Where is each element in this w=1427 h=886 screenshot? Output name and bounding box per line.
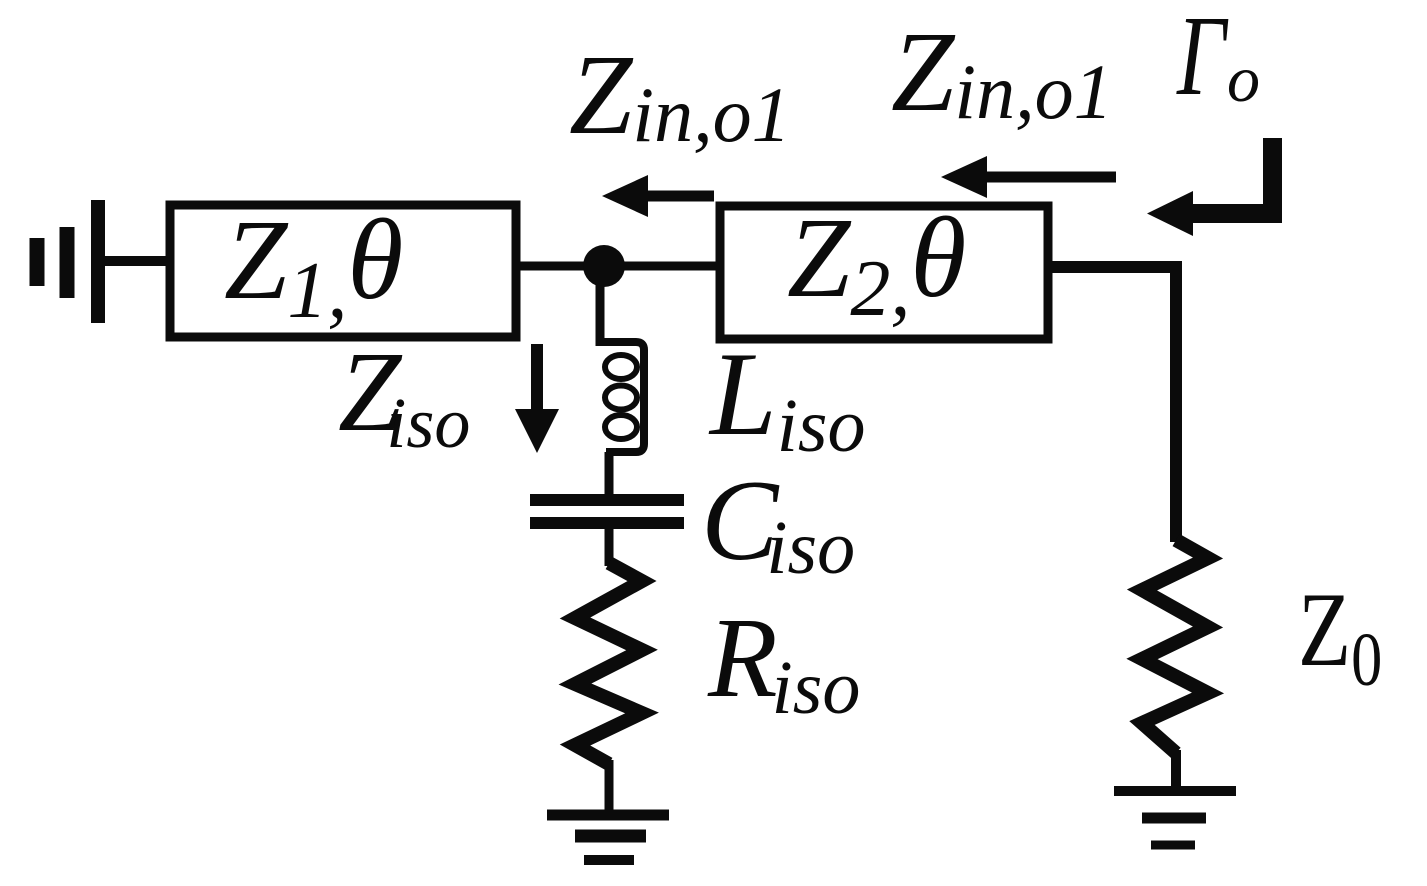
capacitor Ciso [530, 500, 684, 523]
label Z1,theta [224, 196, 403, 335]
svg-text:Γ: Γ [1176, 0, 1229, 119]
wire: Z1 to node [516, 262, 620, 271]
transmission line Z1 (box) [170, 205, 516, 337]
svg-text:Liso: Liso [708, 327, 865, 468]
resistor Riso (zigzag) [575, 563, 642, 764]
wire: left ground to Z1 [103, 256, 172, 266]
label Z0 [1298, 571, 1382, 703]
label Z2,theta [787, 194, 966, 333]
label Gamma_o [1176, 0, 1260, 119]
svg-text:Zin,o1: Zin,o1 [891, 8, 1113, 135]
arrow Zin,o1 (second, over Z2) [941, 156, 1116, 198]
label Ciso [701, 457, 855, 590]
svg-text:o: o [1227, 43, 1260, 116]
svg-text:Z0: Z0 [1298, 571, 1382, 703]
resistor Z0 (zigzag) [1142, 540, 1208, 753]
wire: capacitor to resistor [605, 523, 614, 566]
ground (below Riso) [547, 815, 669, 860]
svg-text:Riso: Riso [707, 594, 860, 730]
transmission line Z2 (box) [720, 206, 1048, 339]
ground (below Z0) [1114, 791, 1236, 845]
svg-text:Zin,o1: Zin,o1 [569, 31, 791, 158]
svg-text:Ziso: Ziso [338, 328, 470, 463]
wire: Z0 to ground [1171, 750, 1181, 791]
ground (left, rotated pointing left) [37, 200, 98, 323]
label Ziso [338, 328, 470, 463]
wire: node to Z2 [604, 262, 720, 271]
label Zin,o1 (first) [569, 31, 791, 158]
label Zin,o1 (second) [891, 8, 1113, 135]
label Liso [708, 327, 865, 468]
svg-text:Z2,θ: Z2,θ [787, 194, 966, 333]
wire: resistor to ground [605, 760, 614, 813]
node (junction dot) [583, 245, 625, 287]
arrow Zin,o1 (left arrow over node) [602, 175, 714, 217]
arrow Gamma_o (bent corner arrow) [1147, 138, 1273, 236]
arrow Ziso (down arrow) [515, 344, 559, 453]
svg-text:Ciso: Ciso [701, 457, 855, 590]
inductor Liso [600, 342, 644, 452]
wire: node down to inductor [596, 266, 605, 346]
label Riso [707, 594, 860, 730]
wire: Z2 to right branch corner and down [1048, 267, 1176, 542]
svg-text:Z1,θ: Z1,θ [224, 196, 403, 335]
wire: inductor to capacitor [605, 452, 614, 496]
